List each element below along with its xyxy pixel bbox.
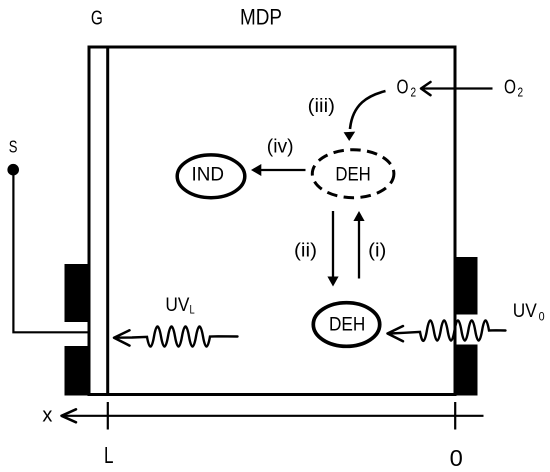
svg-text:L: L — [190, 303, 195, 317]
svg-text:(ii): (ii) — [294, 241, 317, 262]
svg-text:0: 0 — [450, 445, 463, 471]
svg-text:MDP: MDP — [240, 5, 282, 30]
svg-text:O: O — [397, 77, 409, 99]
svg-text:(i): (i) — [368, 241, 386, 262]
svg-text:L: L — [104, 442, 114, 468]
svg-text:UV: UV — [513, 301, 537, 322]
svg-text:x: x — [42, 405, 52, 427]
svg-text:O: O — [504, 77, 516, 99]
svg-text:2: 2 — [411, 86, 417, 100]
svg-text:IND: IND — [192, 164, 225, 185]
svg-text:(iii): (iii) — [308, 96, 335, 117]
svg-text:2: 2 — [518, 86, 524, 100]
svg-text:DEH: DEH — [335, 164, 370, 185]
svg-text:DEH: DEH — [329, 315, 365, 336]
svg-text:0: 0 — [539, 310, 545, 324]
svg-text:S: S — [9, 137, 18, 157]
svg-text:UV: UV — [165, 295, 189, 316]
svg-text:(iv): (iv) — [267, 137, 294, 158]
svg-text:G: G — [91, 7, 103, 29]
